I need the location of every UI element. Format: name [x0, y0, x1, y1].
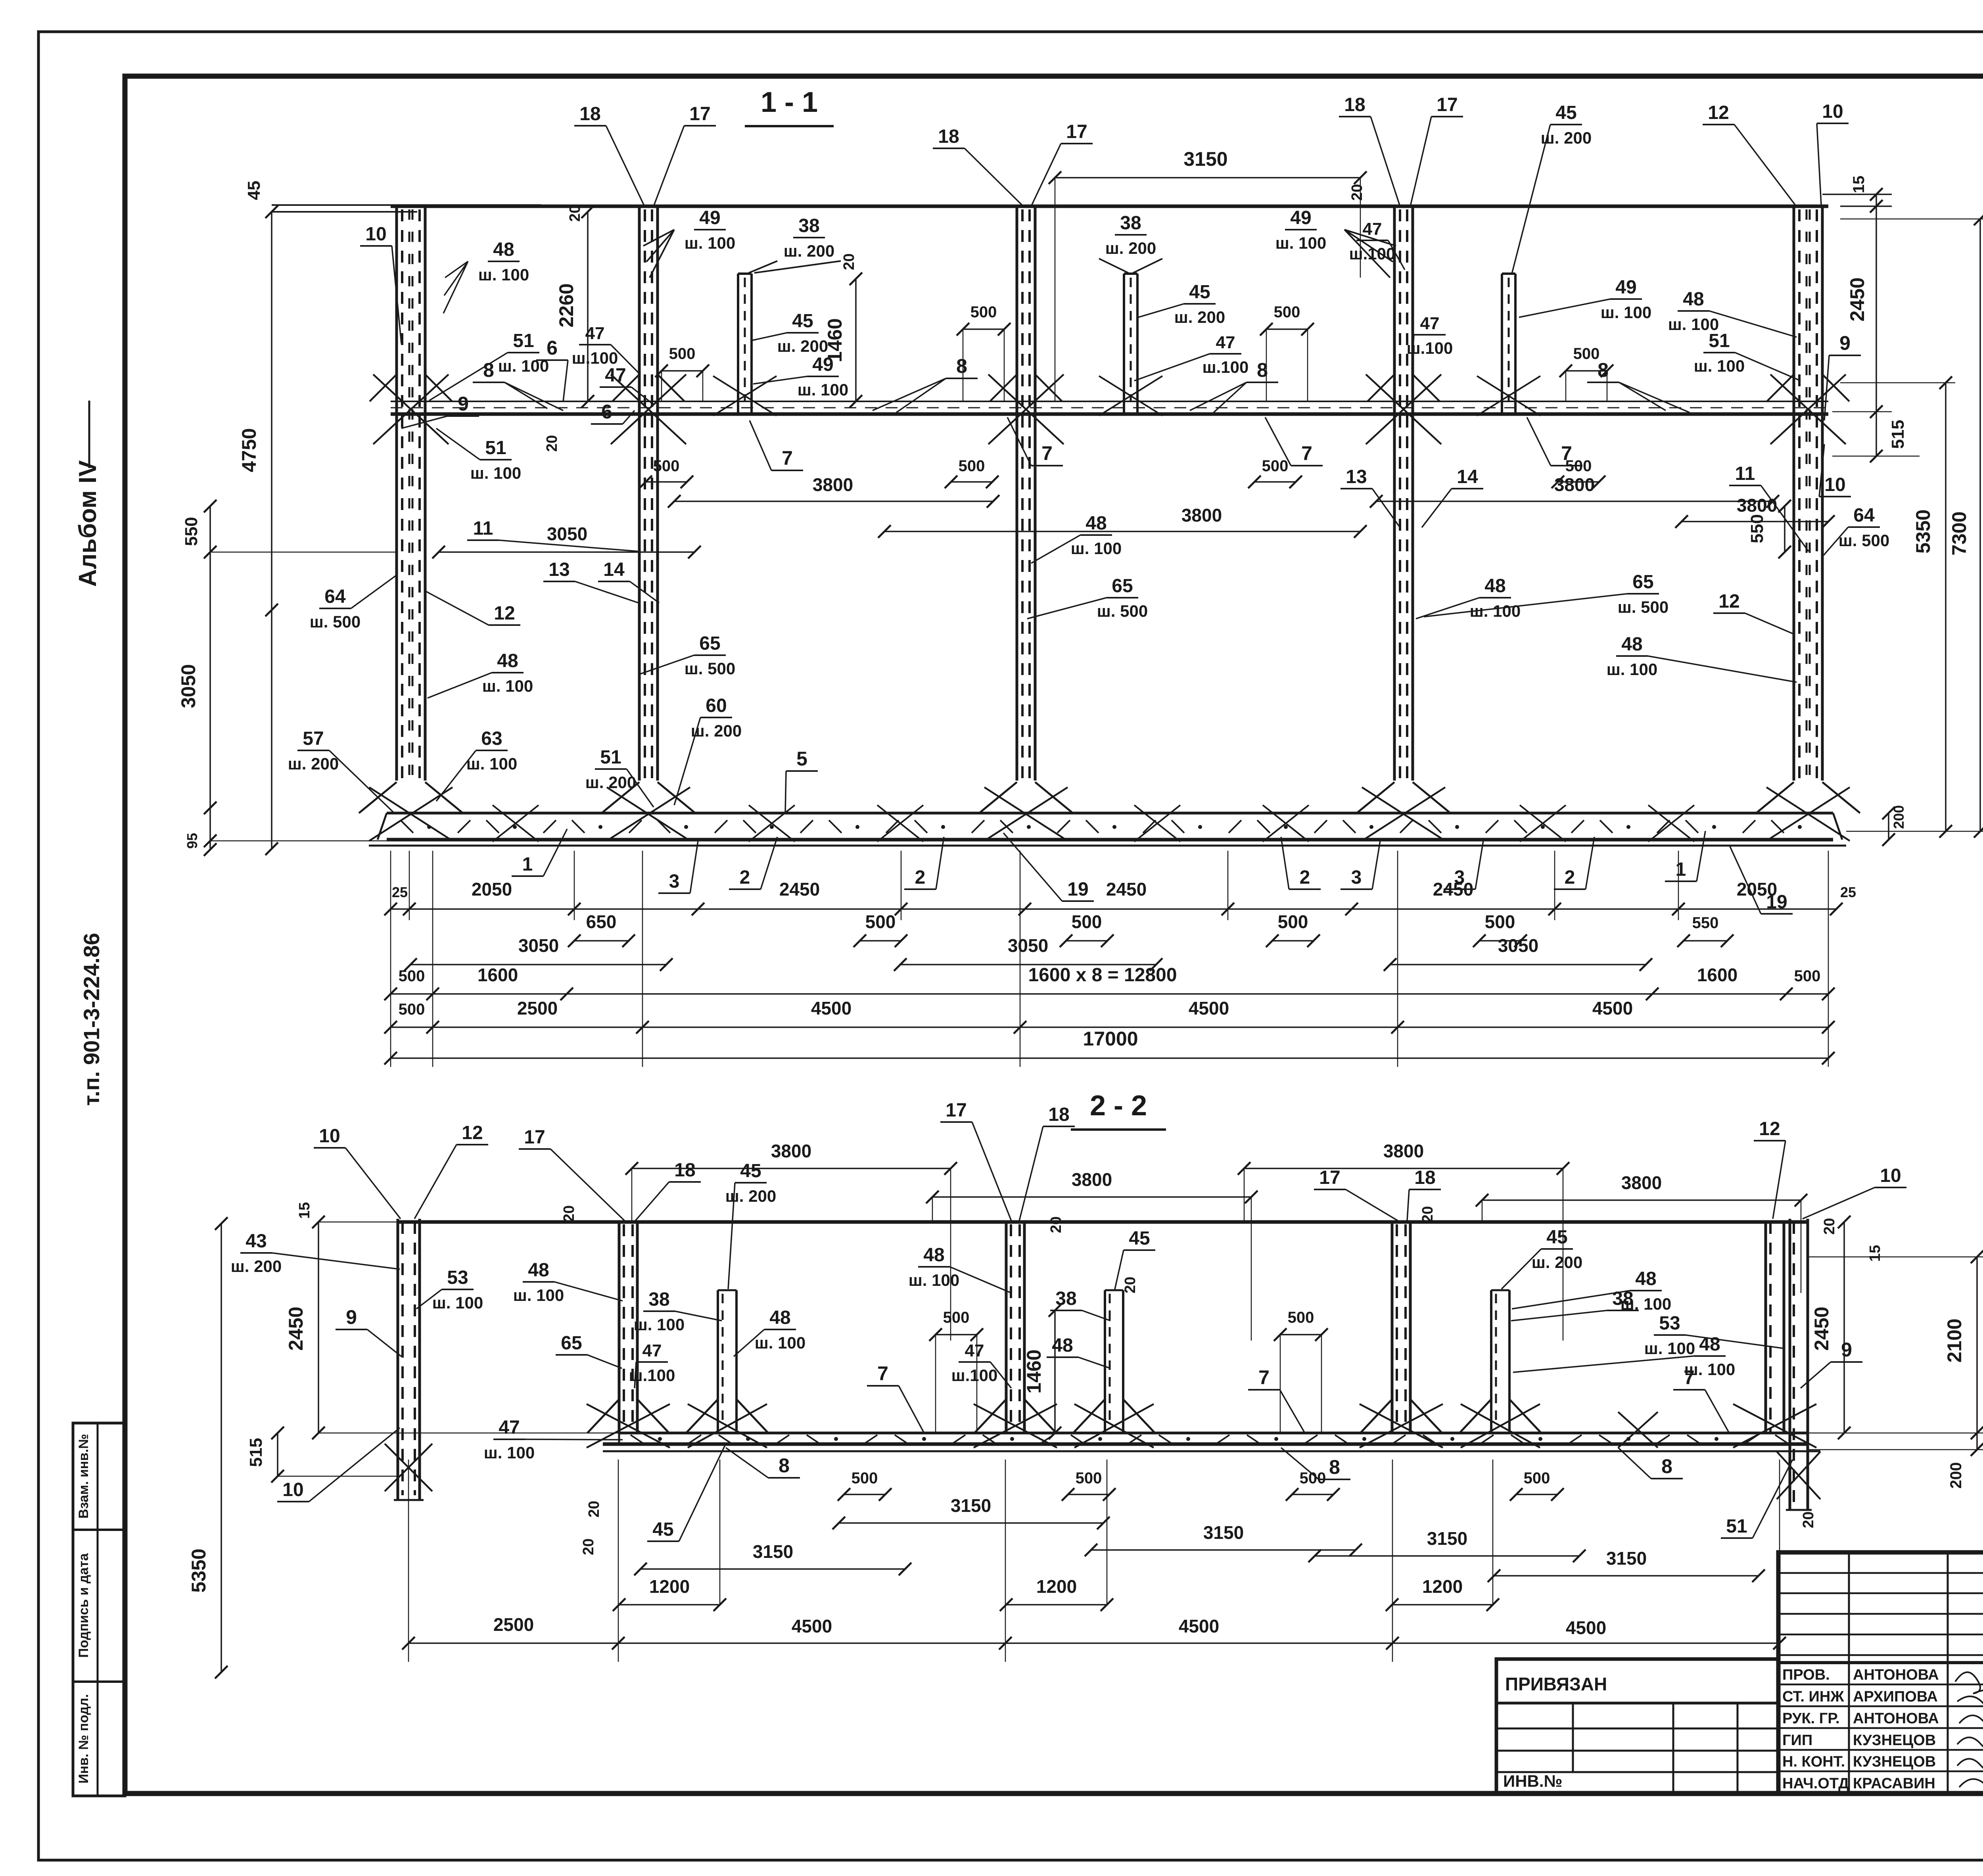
lap splice X at W3 footing	[984, 787, 1068, 841]
svg-text:500: 500	[399, 1001, 425, 1018]
wall W5 section 1-1	[1793, 206, 1795, 781]
svg-text:ш. 100: ш. 100	[470, 464, 521, 482]
lap splice X at W1 footing	[369, 787, 453, 841]
stamp signature grid	[1778, 1572, 1983, 1574]
svg-text:45: 45	[1546, 1227, 1567, 1248]
svg-text:2500: 2500	[493, 1614, 534, 1635]
svg-text:ш. 100: ш. 100	[1275, 234, 1326, 252]
svg-text:КУЗНЕЦОВ: КУЗНЕЦОВ	[1853, 1753, 1936, 1770]
svg-text:500: 500	[653, 457, 680, 475]
svg-text:2450: 2450	[779, 879, 820, 900]
dim 500 pairs below mid slab	[646, 481, 687, 483]
svg-text:КРАСАВИН: КРАСАВИН	[1853, 1775, 1935, 1792]
svg-text:3800: 3800	[813, 474, 853, 495]
svg-text:515: 515	[246, 1438, 266, 1467]
svg-text:17: 17	[1436, 94, 1458, 115]
svg-text:1200: 1200	[649, 1576, 690, 1597]
right dim 7300	[1979, 219, 1981, 831]
svg-text:ш. 100: ш. 100	[798, 380, 848, 399]
dim 3150 staggered rows (2-2)	[839, 1522, 1103, 1524]
svg-text:51: 51	[513, 330, 534, 351]
lap splice X at W2 footing	[607, 787, 690, 841]
floor hatch (2-2)	[631, 1435, 642, 1443]
svg-text:20: 20	[1048, 1216, 1064, 1233]
dim 2260 vertical	[587, 212, 589, 401]
dim row 2500/4500 (2-2)	[408, 1642, 1780, 1644]
svg-text:12: 12	[462, 1122, 483, 1143]
svg-text:500: 500	[1262, 457, 1289, 475]
svg-text:3800: 3800	[1554, 474, 1595, 495]
svg-text:3050: 3050	[547, 524, 587, 544]
svg-text:1200: 1200	[1036, 1576, 1077, 1597]
svg-text:1: 1	[1676, 859, 1686, 880]
svg-text:7300: 7300	[1948, 511, 1970, 555]
svg-text:500: 500	[1524, 1469, 1550, 1487]
svg-text:53: 53	[1659, 1313, 1680, 1334]
svg-text:38: 38	[1120, 213, 1141, 234]
svg-text:20: 20	[1419, 1206, 1436, 1223]
dim 500 near mid slab	[1566, 370, 1607, 372]
svg-text:650: 650	[586, 911, 617, 932]
svg-text:ш. 100: ш. 100	[466, 754, 517, 773]
svg-text:11: 11	[1735, 463, 1755, 484]
svg-text:47: 47	[642, 1341, 662, 1360]
svg-text:ш. 100: ш. 100	[484, 1443, 535, 1462]
X splice at left deep wall bottom	[385, 1444, 432, 1491]
svg-text:7: 7	[1258, 1366, 1270, 1389]
svg-text:65: 65	[1632, 572, 1653, 593]
svg-text:500: 500	[669, 345, 696, 363]
svg-text:500: 500	[1076, 1469, 1102, 1487]
svg-text:500: 500	[970, 303, 997, 321]
lap splice X at W4 footing	[1362, 787, 1445, 841]
svg-text:2 - 2: 2 - 2	[1090, 1090, 1147, 1122]
svg-text:3: 3	[1351, 867, 1362, 888]
svg-text:2: 2	[915, 867, 926, 888]
svg-text:7: 7	[877, 1362, 888, 1385]
svg-text:550: 550	[1747, 514, 1767, 543]
section 2-2 top line	[398, 1220, 1808, 1224]
svg-text:49: 49	[699, 207, 720, 228]
svg-text:7: 7	[1041, 442, 1053, 464]
X splice at right wall floor (2-2)	[1733, 1404, 1816, 1448]
svg-text:11: 11	[473, 518, 493, 539]
svg-text:49: 49	[1615, 277, 1636, 298]
svg-text:48: 48	[1484, 575, 1505, 597]
dim 1460 vertical (2-2)	[1054, 1310, 1056, 1433]
left dim 5350 (2-2)	[221, 1224, 222, 1672]
title block: main stamp	[1778, 1552, 1983, 1794]
svg-text:3150: 3150	[1606, 1548, 1647, 1569]
svg-text:20: 20	[561, 1205, 577, 1222]
svg-text:500: 500	[1278, 911, 1308, 932]
lap splice X at W2 mid slab	[611, 374, 686, 444]
svg-text:5350: 5350	[1912, 509, 1934, 553]
svg-text:ш. 100: ш. 100	[685, 234, 735, 252]
svg-text:17: 17	[524, 1127, 545, 1148]
svg-text:АРХИПОВА: АРХИПОВА	[1853, 1688, 1938, 1705]
svg-text:10: 10	[1880, 1165, 1901, 1186]
svg-text:17: 17	[1319, 1167, 1340, 1188]
svg-text:19: 19	[1067, 879, 1088, 900]
svg-text:3150: 3150	[1183, 148, 1227, 170]
wall W4 section 1-1	[1393, 206, 1396, 781]
dim 500 near mid slab	[963, 328, 1004, 330]
right wall pair (2-2)	[1764, 1222, 1767, 1433]
footing haunch W5	[1756, 782, 1794, 813]
svg-text:10: 10	[1824, 474, 1845, 495]
svg-text:500: 500	[1300, 1469, 1326, 1487]
svg-text:48: 48	[923, 1245, 944, 1266]
svg-text:2450: 2450	[1846, 277, 1868, 321]
svg-text:18: 18	[674, 1160, 695, 1181]
svg-text:ш. 200: ш. 200	[1174, 308, 1225, 326]
svg-text:500: 500	[943, 1309, 970, 1326]
svg-text:ш. 200: ш. 200	[231, 1257, 282, 1276]
svg-text:3800: 3800	[1072, 1169, 1112, 1190]
left dim chain 4750	[271, 212, 272, 849]
svg-text:ш.100: ш.100	[1349, 244, 1396, 263]
svg-text:2450: 2450	[1106, 879, 1147, 900]
slab X lap splices row (1-1)	[493, 805, 539, 842]
svg-text:13: 13	[1346, 466, 1367, 487]
svg-text:18: 18	[579, 104, 600, 125]
svg-text:500: 500	[1274, 303, 1300, 321]
svg-text:9: 9	[1839, 332, 1851, 354]
svg-text:17: 17	[1066, 121, 1087, 142]
svg-text:20: 20	[1821, 1218, 1838, 1235]
rebar stub 2 (2-2)	[1104, 1290, 1106, 1433]
svg-text:48: 48	[1635, 1268, 1656, 1289]
dim row E: 500|2500|4500|4500|4500	[391, 1026, 1828, 1028]
svg-text:15: 15	[1867, 1245, 1883, 1262]
interior wall 1 (2-2)	[618, 1222, 621, 1433]
svg-text:18: 18	[1344, 94, 1365, 115]
svg-text:2050: 2050	[472, 879, 512, 900]
svg-text:48: 48	[1085, 513, 1107, 534]
svg-text:2: 2	[1565, 867, 1575, 888]
interior wall 2 (2-2)	[1005, 1222, 1008, 1433]
svg-text:ш. 500: ш. 500	[1618, 598, 1668, 616]
svg-text:2260: 2260	[555, 283, 577, 327]
dim 500 (2-2)	[1280, 1334, 1321, 1335]
svg-text:200: 200	[1947, 1462, 1965, 1489]
svg-text:Инв. № подл.: Инв. № подл.	[76, 1694, 91, 1784]
X splice at right deep wall bottom	[1777, 1452, 1820, 1499]
rebar stub 3 (2-2)	[1490, 1290, 1492, 1433]
svg-text:45: 45	[1129, 1228, 1150, 1249]
dim 3800 row (below mid slab)	[674, 501, 993, 502]
svg-text:515: 515	[1888, 420, 1908, 449]
rebar stub S2 on mid slab (1-1)	[1123, 274, 1125, 414]
svg-text:АНТОНОВА: АНТОНОВА	[1853, 1667, 1939, 1683]
svg-text:47: 47	[605, 365, 626, 386]
signatures	[1955, 1672, 1983, 1707]
dim 1200 row (2-2)	[619, 1604, 720, 1606]
svg-text:500: 500	[1573, 345, 1600, 363]
svg-text:48: 48	[1621, 634, 1642, 655]
svg-text:500: 500	[399, 967, 425, 985]
svg-text:13: 13	[548, 559, 570, 580]
svg-text:1600 x 8 = 12800: 1600 x 8 = 12800	[1028, 965, 1177, 986]
svg-text:3050: 3050	[1008, 935, 1048, 956]
dim 500 pairs below floor (2-2)	[844, 1494, 885, 1495]
interior wall 3 (2-2)	[1391, 1222, 1394, 1433]
svg-text:ш.100: ш.100	[1202, 358, 1249, 376]
svg-text:500: 500	[852, 1469, 878, 1487]
svg-text:51: 51	[600, 747, 621, 768]
svg-text:4500: 4500	[1566, 1617, 1606, 1638]
svg-text:65: 65	[561, 1333, 582, 1354]
svg-text:500: 500	[1072, 911, 1102, 932]
svg-text:38: 38	[798, 215, 819, 236]
svg-text:3: 3	[1454, 867, 1465, 888]
svg-text:3150: 3150	[1427, 1528, 1467, 1549]
svg-text:51: 51	[485, 437, 506, 458]
svg-text:ГИП: ГИП	[1782, 1732, 1812, 1749]
svg-text:3050: 3050	[1498, 935, 1538, 956]
svg-text:2450: 2450	[285, 1306, 307, 1350]
svg-text:500: 500	[1485, 911, 1515, 932]
top dim 3150	[1055, 177, 1360, 178]
svg-text:64: 64	[1853, 505, 1875, 526]
svg-text:47: 47	[1216, 333, 1235, 352]
svg-text:ш. 500: ш. 500	[1097, 602, 1148, 620]
right dim 15/2450/515	[1822, 194, 1892, 195]
svg-text:2: 2	[740, 867, 750, 888]
svg-text:17: 17	[689, 104, 710, 125]
svg-text:ПРОВ.: ПРОВ.	[1782, 1667, 1830, 1683]
rebar stub S3 on mid slab (1-1)	[1501, 274, 1503, 414]
svg-text:ш. 100: ш. 100	[478, 265, 529, 284]
svg-text:45: 45	[1555, 102, 1576, 123]
rebar stub 1 (2-2)	[717, 1290, 719, 1433]
lap splice X at W1 mid slab	[373, 374, 449, 444]
svg-text:95: 95	[184, 833, 200, 849]
svg-text:63: 63	[481, 728, 502, 749]
svg-text:4500: 4500	[1179, 1616, 1219, 1636]
svg-text:3800: 3800	[1383, 1141, 1424, 1161]
svg-text:45: 45	[244, 181, 264, 200]
svg-text:6: 6	[547, 337, 558, 359]
svg-text:47: 47	[1420, 314, 1440, 333]
svg-text:ш. 100: ш. 100	[1684, 1360, 1735, 1379]
svg-text:47: 47	[1363, 219, 1382, 239]
svg-text:ш. 100: ш. 100	[482, 677, 533, 695]
right dim 5350	[1945, 383, 1947, 831]
svg-text:ш. 500: ш. 500	[1839, 531, 1889, 550]
svg-text:ш. 500: ш. 500	[310, 612, 361, 631]
svg-text:ш. 100: ш. 100	[909, 1271, 959, 1289]
svg-text:8: 8	[1329, 1456, 1340, 1478]
svg-text:8: 8	[483, 359, 494, 381]
lap splice X at W3 mid slab	[988, 374, 1064, 444]
slab hatch marks	[401, 820, 413, 833]
svg-text:10: 10	[1822, 101, 1843, 122]
bottom slab (1-1)	[387, 812, 1833, 815]
svg-text:20: 20	[1349, 184, 1365, 201]
left dim chain 550/3050/95	[209, 506, 211, 850]
svg-text:9: 9	[346, 1306, 357, 1328]
svg-text:45: 45	[740, 1161, 761, 1182]
svg-text:1: 1	[522, 854, 533, 875]
svg-text:1600: 1600	[1697, 965, 1738, 985]
svg-text:20: 20	[567, 205, 583, 222]
dim 500 (2-2)	[936, 1334, 977, 1335]
svg-text:51: 51	[1726, 1516, 1747, 1537]
svg-text:43: 43	[245, 1231, 267, 1252]
svg-text:ш. 100: ш. 100	[1071, 539, 1122, 558]
svg-text:9: 9	[1841, 1339, 1852, 1361]
svg-text:12: 12	[494, 603, 515, 624]
svg-text:ш. 200: ш. 200	[1532, 1253, 1582, 1272]
svg-text:КУЗНЕЦОВ: КУЗНЕЦОВ	[1853, 1732, 1936, 1749]
svg-text:1460: 1460	[824, 318, 846, 362]
svg-text:48: 48	[497, 650, 518, 671]
svg-text:20: 20	[1122, 1277, 1139, 1293]
svg-text:48: 48	[769, 1307, 790, 1328]
section 1-1 roof line	[391, 205, 1828, 208]
svg-text:48: 48	[528, 1260, 549, 1281]
svg-text:48: 48	[493, 239, 514, 260]
svg-text:НАЧ.ОТД: НАЧ.ОТД	[1782, 1775, 1849, 1792]
dim 3050 upper-left cell	[439, 551, 694, 553]
floor slab (2-2)	[619, 1432, 1807, 1435]
svg-text:1200: 1200	[1422, 1576, 1463, 1597]
svg-text:т.п. 901-3-224.86: т.п. 901-3-224.86	[79, 933, 104, 1106]
svg-text:3: 3	[669, 871, 680, 892]
svg-text:АНТОНОВА: АНТОНОВА	[1853, 1710, 1939, 1727]
svg-text:4500: 4500	[792, 1616, 832, 1636]
svg-text:64: 64	[324, 586, 346, 607]
dim 500 near mid slab	[1266, 328, 1308, 330]
dim 1460 vertical	[855, 279, 857, 401]
lap splice X at W4 mid slab	[1366, 374, 1441, 444]
svg-text:25: 25	[392, 884, 408, 900]
svg-text:7: 7	[782, 447, 793, 469]
dim row B: 650 and 500s	[574, 940, 629, 942]
left dim 515 (2-2)	[277, 1433, 278, 1476]
svg-text:ш. 100: ш. 100	[634, 1315, 685, 1334]
svg-text:4500: 4500	[811, 998, 852, 1019]
svg-text:3150: 3150	[753, 1541, 793, 1562]
svg-text:Н. КОНТ.: Н. КОНТ.	[1782, 1753, 1845, 1770]
title block: privyazan box	[1496, 1659, 1778, 1794]
svg-text:10: 10	[282, 1479, 303, 1500]
svg-text:18: 18	[1414, 1167, 1435, 1188]
svg-text:45: 45	[652, 1519, 673, 1540]
footing haunch W1	[359, 782, 397, 813]
svg-text:Альбом IV: Альбом IV	[74, 460, 102, 587]
svg-text:18: 18	[938, 126, 959, 147]
svg-text:17000: 17000	[1083, 1028, 1138, 1050]
svg-text:ш. 200: ш. 200	[725, 1187, 776, 1205]
svg-text:4500: 4500	[1592, 998, 1633, 1019]
left deep wall (2-2)	[397, 1219, 399, 1500]
svg-text:500: 500	[1288, 1309, 1314, 1326]
svg-text:2100: 2100	[1943, 1318, 1966, 1362]
svg-text:5350: 5350	[188, 1548, 210, 1592]
svg-text:500: 500	[959, 457, 985, 475]
svg-text:2500: 2500	[517, 998, 558, 1019]
svg-text:65: 65	[699, 633, 720, 654]
left dim 2450 (2-2)	[318, 1222, 319, 1433]
footing haunch W3	[979, 782, 1017, 813]
svg-text:ш. 500: ш. 500	[685, 659, 735, 678]
svg-text:8: 8	[956, 355, 967, 377]
footing haunch W4	[1357, 782, 1394, 813]
svg-text:2450: 2450	[1810, 1306, 1833, 1350]
left dim 45 extension lines	[272, 204, 541, 206]
section 1-1 mid slab lines	[391, 401, 1828, 402]
svg-text:СТ. ИНЖ: СТ. ИНЖ	[1782, 1688, 1844, 1705]
svg-text:ПРИВЯЗАН: ПРИВЯЗАН	[1505, 1674, 1607, 1694]
svg-text:500: 500	[1794, 967, 1821, 985]
svg-text:45: 45	[792, 311, 813, 332]
svg-text:Взам. инв.№: Взам. инв.№	[76, 1434, 91, 1519]
svg-text:3150: 3150	[951, 1495, 991, 1516]
svg-text:20: 20	[841, 253, 857, 270]
svg-text:500: 500	[1565, 457, 1592, 475]
svg-text:20: 20	[544, 435, 560, 452]
extension lines (2-2 bottom dims)	[408, 1460, 409, 1662]
svg-text:12: 12	[1718, 591, 1739, 612]
svg-text:15: 15	[1850, 176, 1868, 194]
svg-text:19: 19	[1766, 892, 1787, 913]
right dim 2100/200 (2-2)	[1976, 1257, 1978, 1450]
extension lines below slab	[390, 851, 391, 1067]
svg-text:7: 7	[1301, 442, 1312, 464]
dim row D: 500|1600|1600x8=12800|1600|500	[391, 993, 1828, 995]
svg-text:3050: 3050	[518, 935, 559, 956]
svg-text:9: 9	[458, 393, 469, 415]
svg-text:25: 25	[1840, 884, 1856, 900]
svg-text:ш. 200: ш. 200	[784, 242, 834, 260]
svg-text:ш. 100: ш. 100	[755, 1333, 805, 1352]
svg-text:14: 14	[603, 559, 625, 580]
svg-text:ш. 200: ш. 200	[288, 754, 339, 773]
svg-text:ш. 200: ш. 200	[1105, 239, 1156, 257]
svg-text:3800: 3800	[771, 1141, 811, 1161]
svg-text:8: 8	[779, 1454, 790, 1477]
svg-text:20: 20	[1800, 1512, 1817, 1528]
svg-text:49: 49	[1290, 207, 1311, 228]
svg-text:38: 38	[1612, 1288, 1633, 1309]
svg-text:10: 10	[319, 1126, 340, 1147]
wall W2 section 1-1	[638, 206, 641, 781]
svg-text:ш.100: ш.100	[572, 349, 618, 367]
svg-text:ш. 100: ш. 100	[513, 1286, 564, 1304]
svg-text:1460: 1460	[1023, 1349, 1045, 1393]
svg-text:8: 8	[1661, 1455, 1672, 1477]
svg-text:ш. 100: ш. 100	[432, 1293, 483, 1312]
svg-text:65: 65	[1112, 575, 1133, 597]
dim 500 near mid slab	[662, 370, 703, 372]
svg-text:57: 57	[303, 728, 324, 749]
svg-text:38: 38	[648, 1289, 669, 1310]
svg-text:4750: 4750	[238, 428, 260, 472]
svg-text:550: 550	[182, 517, 201, 546]
stamp names	[1778, 1684, 1983, 1686]
svg-text:3050: 3050	[177, 664, 199, 708]
left margin stamp boxes	[73, 1423, 125, 1796]
lap splice X at W5 footing	[1766, 787, 1850, 841]
svg-text:6: 6	[601, 401, 612, 423]
svg-text:ИНВ.№: ИНВ.№	[1503, 1772, 1562, 1790]
svg-text:18: 18	[1048, 1104, 1069, 1125]
svg-text:3800: 3800	[1181, 505, 1222, 526]
svg-text:10: 10	[365, 224, 386, 245]
